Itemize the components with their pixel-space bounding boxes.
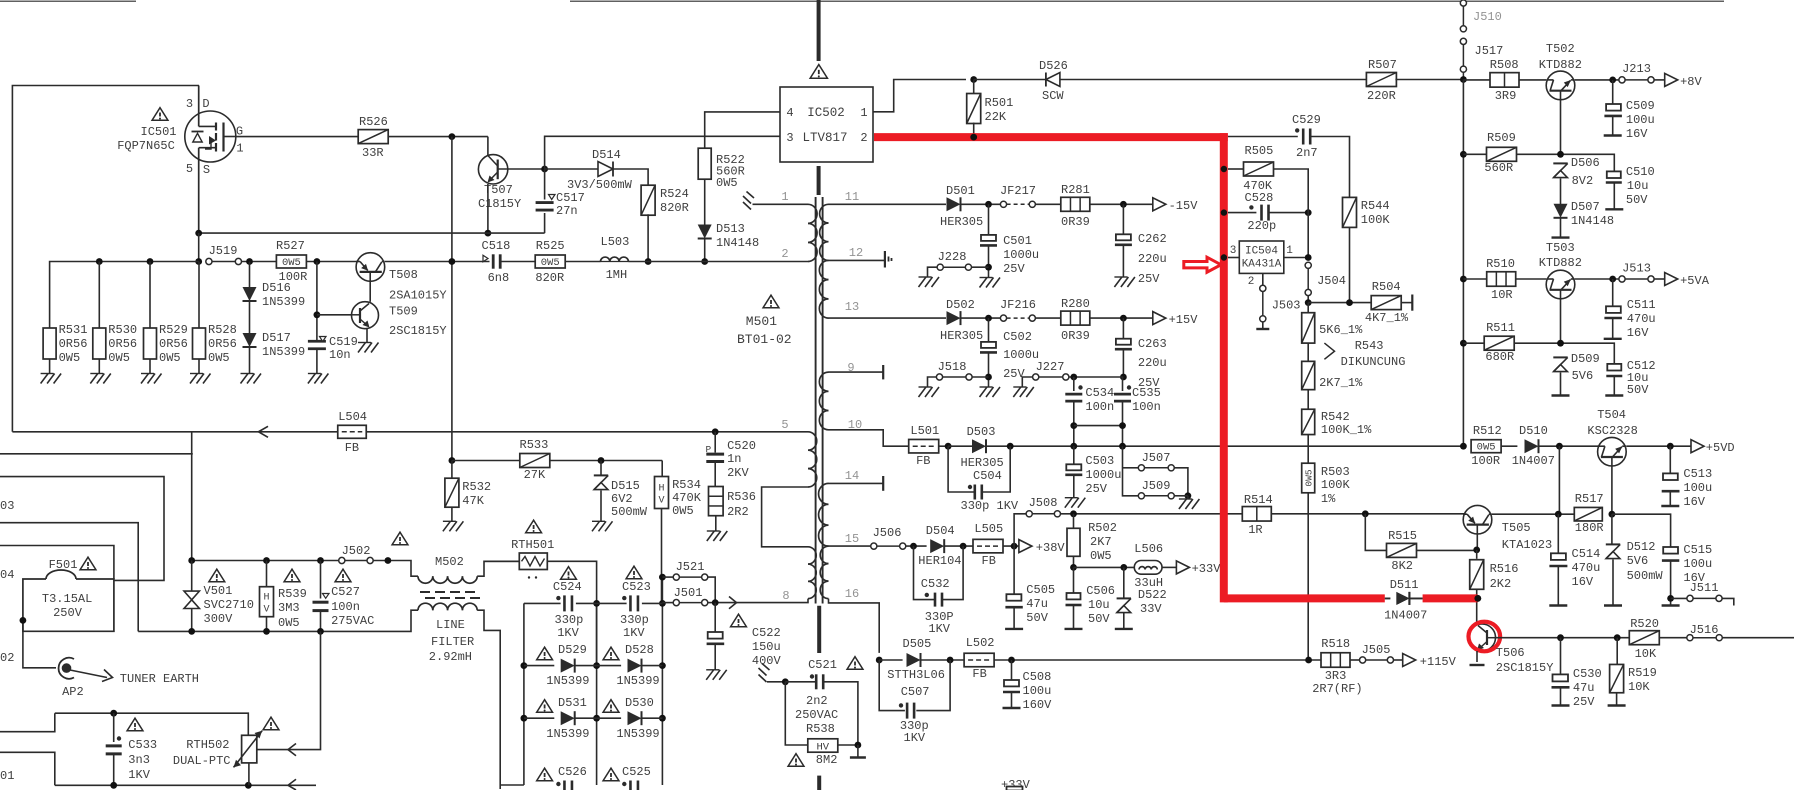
svg-text:D510: D510 bbox=[1519, 424, 1548, 438]
label 2SA1015Y bbox=[389, 289, 447, 303]
svg-text:C521: C521 bbox=[808, 658, 837, 672]
red highlight horizontal lower left part bbox=[1224, 594, 1385, 602]
label 10u bbox=[1088, 598, 1110, 612]
svg-text:KA431A: KA431A bbox=[1242, 259, 1282, 271]
jumper J501 bbox=[673, 586, 708, 606]
wire AP2 arrow line bbox=[70, 670, 107, 678]
svg-text:IC502: IC502 bbox=[807, 106, 845, 120]
jumper JF216 bbox=[1000, 298, 1036, 321]
svg-text:HER305: HER305 bbox=[940, 215, 983, 229]
wire D515 to ground bbox=[600, 491, 602, 522]
resistor R536 2R2 bbox=[709, 487, 724, 516]
svg-text:C528: C528 bbox=[1245, 191, 1274, 205]
label 8V2 bbox=[1572, 174, 1594, 188]
svg-text:03: 03 bbox=[0, 499, 14, 513]
svg-text:C1815Y: C1815Y bbox=[478, 197, 521, 211]
resistor R528 0R56 bbox=[193, 328, 206, 359]
svg-text:IC501: IC501 bbox=[141, 125, 177, 139]
isolation barrier thick line below core bbox=[817, 606, 821, 653]
wire T504 emitter to +5VD bbox=[1626, 445, 1691, 447]
label 1N5399 bbox=[262, 295, 305, 309]
svg-text:C525: C525 bbox=[622, 765, 651, 779]
svg-text:IC504: IC504 bbox=[1245, 246, 1278, 258]
wire pin10 step bbox=[829, 430, 909, 446]
border top-right bbox=[570, 0, 1724, 2]
svg-text:47u: 47u bbox=[1573, 681, 1595, 695]
junction R544 bottom bbox=[1346, 299, 1353, 306]
wire C504 loop right bbox=[982, 446, 1010, 492]
capacitor C529 2n7 bbox=[1303, 129, 1310, 145]
label 8M2 bbox=[816, 753, 838, 767]
label D530 bbox=[625, 696, 654, 710]
capacitor C521 2n2 250VAC bbox=[816, 674, 823, 689]
wire J227 left leg bbox=[1022, 377, 1032, 387]
ground under R532 bbox=[443, 521, 464, 531]
svg-text:J513: J513 bbox=[1622, 262, 1651, 276]
label 1N4007 bbox=[1512, 454, 1555, 468]
svg-text:D503: D503 bbox=[967, 425, 996, 439]
svg-text:T506: T506 bbox=[1496, 646, 1525, 660]
svg-text:D502: D502 bbox=[946, 298, 975, 312]
wire C262 lead bbox=[1122, 204, 1124, 234]
svg-text:16V: 16V bbox=[1683, 495, 1705, 509]
label D507 bbox=[1571, 200, 1600, 214]
pin label 1 bbox=[236, 142, 243, 156]
junction R530 top bbox=[96, 258, 103, 265]
ground under C503 bbox=[1065, 498, 1086, 508]
wire riser to pin1 node bbox=[1307, 205, 1309, 258]
wire pin9 row bbox=[829, 371, 884, 373]
label M502 bbox=[435, 555, 464, 569]
wire riser to R517 row bbox=[1558, 446, 1560, 514]
svg-text:F501: F501 bbox=[49, 558, 78, 572]
label 22K bbox=[985, 110, 1007, 124]
label R525 bbox=[536, 239, 565, 253]
label 27n bbox=[556, 204, 578, 218]
svg-text:FILTER: FILTER bbox=[431, 635, 474, 649]
wire 2K7 to R542 bbox=[1307, 390, 1309, 410]
label 100u bbox=[1023, 684, 1052, 698]
transistor T502 KTD882 bbox=[1546, 71, 1575, 100]
label 5V6 bbox=[1627, 554, 1649, 568]
transistor T509 2SC1815Y bbox=[352, 302, 379, 329]
junction T509 base node bbox=[314, 311, 321, 318]
label C504 bbox=[973, 469, 1002, 483]
wire node to D514 bbox=[545, 168, 598, 170]
svg-text:D526: D526 bbox=[1039, 59, 1068, 73]
wire input stub to fuse right bbox=[0, 477, 164, 581]
label D501 bbox=[946, 184, 975, 198]
resistor R512 0W5 bbox=[1471, 440, 1501, 454]
svg-text:J521: J521 bbox=[676, 560, 705, 574]
label 10n bbox=[329, 348, 351, 362]
label C1815Y bbox=[478, 197, 521, 211]
label KSC2328 bbox=[1587, 424, 1637, 438]
wire degauss bottom row bbox=[55, 784, 316, 786]
capacitor C263 220u 25V bbox=[1115, 339, 1132, 350]
wire R527 to T508 bbox=[306, 261, 356, 263]
svg-text:4K7_1%: 4K7_1% bbox=[1365, 311, 1409, 325]
wire C524 row bbox=[524, 602, 561, 604]
wire IC501 gate to R526 bbox=[236, 136, 359, 138]
resistor R516 2K2 bbox=[1470, 560, 1484, 590]
label D509 bbox=[1571, 352, 1600, 366]
junction D509 top bbox=[1557, 340, 1564, 347]
svg-text:100u: 100u bbox=[1683, 557, 1712, 571]
svg-text:J510: J510 bbox=[1473, 10, 1502, 24]
pin number 12 bbox=[849, 246, 863, 260]
junction source row bbox=[195, 258, 202, 265]
polarity dot C507 bbox=[899, 703, 903, 707]
capacitor C518 6n8 bbox=[493, 254, 500, 268]
svg-text:C524: C524 bbox=[553, 580, 582, 594]
diode D504 HER104 bbox=[930, 539, 944, 553]
junction R517 right bbox=[1609, 511, 1616, 518]
wire R532 lead top bbox=[451, 461, 453, 479]
wire 5K6 to 2K7 bbox=[1307, 343, 1309, 361]
svg-text:100n: 100n bbox=[1085, 400, 1114, 414]
ground bar under C511 bbox=[1604, 338, 1622, 340]
label 2.92mH bbox=[429, 650, 472, 664]
inductor L501 FB bbox=[909, 439, 939, 453]
label 275VAC bbox=[331, 614, 374, 628]
wire J227 right to C534 node bbox=[1069, 376, 1124, 378]
label R515 bbox=[1388, 529, 1417, 543]
capacitor C508 100u 160V bbox=[1003, 680, 1020, 692]
wire R533 to D515 node bbox=[549, 460, 662, 462]
svg-text:1KV: 1KV bbox=[928, 622, 950, 636]
svg-text:SCW: SCW bbox=[1042, 89, 1064, 103]
junction J518 right bbox=[985, 374, 992, 381]
label D515 bbox=[611, 479, 640, 493]
svg-text:470K: 470K bbox=[672, 491, 702, 505]
jumper J213 bbox=[1619, 62, 1654, 83]
label D502 bbox=[946, 298, 975, 312]
polarity dot C524 bbox=[556, 596, 560, 600]
label 1n bbox=[727, 452, 741, 466]
svg-text:R512: R512 bbox=[1473, 424, 1502, 438]
label 50V bbox=[1627, 383, 1649, 397]
label 3R9 bbox=[1495, 89, 1517, 103]
label R517 bbox=[1575, 492, 1604, 506]
junction riser C528 bbox=[1305, 209, 1312, 216]
winding M501 secondary 11-12 bbox=[820, 204, 829, 260]
svg-text:J508: J508 bbox=[1029, 496, 1058, 510]
wire D517 to ground bbox=[249, 347, 251, 374]
label C534 bbox=[1085, 386, 1114, 400]
wire D515 lead bbox=[600, 461, 602, 476]
label R507 bbox=[1368, 58, 1397, 72]
wire input stub 04b bbox=[0, 546, 114, 580]
inductor L503 1MH bbox=[601, 257, 629, 261]
label 1N5399 bbox=[546, 674, 589, 688]
svg-text:2K2: 2K2 bbox=[1490, 577, 1512, 591]
ground under R528 bbox=[190, 374, 211, 384]
capacitor C514 470u 16V bbox=[1549, 553, 1567, 566]
junction J228 right bbox=[985, 264, 992, 271]
wire D504 to L505 bbox=[944, 545, 974, 547]
label R544 bbox=[1361, 199, 1390, 213]
warning triangle RTH502 bbox=[263, 717, 279, 730]
wire C508 to bar bbox=[1011, 692, 1013, 708]
junction R505 left on red bbox=[1221, 166, 1227, 172]
cut label 01 bbox=[0, 769, 14, 783]
junction D506 top bbox=[1557, 151, 1564, 158]
diode D528 1N5399 bbox=[628, 659, 642, 673]
svg-text:J519: J519 bbox=[209, 244, 238, 258]
svg-text:1KV: 1KV bbox=[128, 768, 150, 782]
svg-text:R544: R544 bbox=[1361, 199, 1390, 213]
svg-text:C514: C514 bbox=[1572, 547, 1601, 561]
transistor T508 2SA1015Y bbox=[356, 253, 385, 282]
label 1MH bbox=[606, 268, 628, 282]
transistor T503 KTD882 bbox=[1546, 270, 1575, 299]
svg-text:L505: L505 bbox=[974, 522, 1003, 536]
wire C509 lead bbox=[1612, 80, 1614, 104]
warning triangle V501 bbox=[209, 569, 225, 582]
label 1KV bbox=[623, 626, 645, 640]
label KTD882 bbox=[1539, 58, 1582, 72]
svg-text:J516: J516 bbox=[1690, 623, 1719, 637]
wire R503 down to +115V row bbox=[1307, 493, 1309, 660]
capacitor C506 10u 50V bbox=[1066, 593, 1082, 605]
label 1N5399 bbox=[616, 727, 659, 741]
wire R281 to -15V arrow bbox=[1090, 203, 1153, 205]
pin number 8 bbox=[782, 589, 789, 603]
svg-text:C534: C534 bbox=[1085, 386, 1114, 400]
svg-text:25V: 25V bbox=[1138, 272, 1160, 286]
wire node up to IC502 pin3 line bbox=[545, 136, 780, 169]
svg-text:1: 1 bbox=[1286, 245, 1293, 257]
label 220u bbox=[1138, 356, 1167, 370]
wire C519 to ground bbox=[316, 349, 318, 374]
output arrow +8V bbox=[1665, 73, 1678, 86]
junction rail R510 bbox=[1460, 276, 1467, 283]
label 25V bbox=[1003, 262, 1025, 276]
label HER305 bbox=[940, 329, 983, 343]
svg-text:3R3: 3R3 bbox=[1325, 669, 1347, 683]
wire chain to 5K6 bbox=[1307, 303, 1309, 313]
wire T505 emitter down bbox=[1476, 533, 1478, 550]
svg-text:3: 3 bbox=[186, 97, 193, 111]
ground under J509 bbox=[1179, 499, 1200, 509]
wire C503 lead bbox=[1073, 446, 1075, 464]
resistor R514 1R bbox=[1242, 507, 1271, 522]
label T505 bbox=[1502, 521, 1531, 535]
svg-text:HER305: HER305 bbox=[940, 329, 983, 343]
resistor R543a 5K6_1% bbox=[1302, 313, 1315, 343]
svg-text:D530: D530 bbox=[625, 696, 654, 710]
pin number 3 bbox=[1230, 245, 1237, 257]
svg-text:2n7: 2n7 bbox=[1296, 146, 1318, 160]
resistor RTH502 DUAL-PTC bbox=[234, 731, 263, 768]
capacitor C507 330p 1KV bbox=[907, 703, 914, 719]
capacitor C509 100u 16V bbox=[1604, 104, 1622, 116]
label 2R7(RF) bbox=[1312, 682, 1362, 696]
junction C502 top bbox=[985, 315, 992, 322]
svg-text:D507: D507 bbox=[1571, 200, 1600, 214]
resistor R542 100K_1% bbox=[1302, 409, 1315, 434]
svg-text:500mW: 500mW bbox=[1627, 569, 1664, 583]
label R505 bbox=[1245, 144, 1274, 158]
wire R510 to T503 bbox=[1516, 278, 1546, 280]
capacitor C513 100u 16V bbox=[1662, 473, 1680, 491]
wire D501 to JF217 bbox=[961, 203, 1001, 205]
label 0W5 bbox=[1090, 549, 1112, 563]
wire C510 to bar bbox=[1613, 183, 1615, 210]
pin number 9 bbox=[847, 361, 854, 375]
junction C508 top bbox=[1008, 657, 1015, 664]
wire pin16 step bbox=[829, 599, 880, 653]
label R534 bbox=[672, 478, 701, 492]
svg-text:0R56: 0R56 bbox=[59, 337, 88, 351]
label C511 bbox=[1627, 298, 1656, 312]
wire R515 to emitter node bbox=[1416, 549, 1477, 551]
svg-text:+5VA: +5VA bbox=[1680, 274, 1710, 288]
label 25V bbox=[1138, 272, 1160, 286]
label R520 bbox=[1630, 617, 1659, 631]
winding M501 secondary 14-15 bbox=[819, 483, 829, 546]
svg-text:1N5399: 1N5399 bbox=[262, 345, 305, 359]
wire D529 row bbox=[524, 665, 554, 667]
resistor R529 0R56 bbox=[144, 328, 157, 359]
label C514 bbox=[1572, 547, 1601, 561]
svg-text:C527: C527 bbox=[331, 585, 360, 599]
wire C529 row bbox=[1228, 136, 1298, 138]
warning triangle F501 bbox=[80, 557, 96, 570]
wire R531 to ground bbox=[49, 359, 51, 374]
ground bar under C530 bbox=[1552, 704, 1570, 706]
wire J507 right loop bbox=[1174, 468, 1188, 496]
svg-text:2: 2 bbox=[781, 247, 788, 261]
ground bar under D507 bbox=[1552, 236, 1570, 238]
svg-text:330p 1KV: 330p 1KV bbox=[961, 499, 1019, 513]
label 0R56 bbox=[159, 337, 188, 351]
label 10K bbox=[1635, 647, 1657, 661]
capacitor C535 100n bbox=[1114, 394, 1131, 401]
svg-text:0R56: 0R56 bbox=[208, 337, 237, 351]
svg-text:D: D bbox=[202, 97, 209, 111]
label 1000u bbox=[1085, 468, 1121, 482]
junction fuse left edge bbox=[20, 617, 27, 624]
label +33V bottom bbox=[1001, 778, 1031, 790]
label 2R2 bbox=[727, 505, 749, 519]
svg-text:KSC2328: KSC2328 bbox=[1587, 424, 1637, 438]
wire R544 to J503 row bbox=[1349, 228, 1351, 303]
wire T509 emitter to ground bbox=[366, 328, 368, 343]
svg-text:100K: 100K bbox=[1361, 213, 1391, 227]
svg-text:H: H bbox=[263, 593, 269, 604]
capacitor C501 1000u 25V bbox=[980, 235, 997, 246]
label 16V bbox=[1683, 571, 1705, 585]
svg-text:TUNER EARTH: TUNER EARTH bbox=[120, 672, 199, 686]
polarity dot C532 bbox=[925, 593, 929, 597]
label 0R39 bbox=[1061, 329, 1090, 343]
wire R534 down to J521 node bbox=[661, 509, 663, 604]
svg-text:330p: 330p bbox=[555, 613, 584, 627]
label 100K_1% bbox=[1321, 423, 1372, 437]
wire C519 riser bbox=[316, 262, 318, 341]
label 10K bbox=[1628, 680, 1650, 694]
label RTH502 bbox=[186, 738, 229, 752]
wire D526 to R507 bbox=[1060, 79, 1367, 81]
label C523 bbox=[622, 580, 651, 594]
capacitor C510 10u 50V bbox=[1606, 171, 1622, 182]
label R509 bbox=[1487, 131, 1516, 145]
wire pin8 step bbox=[715, 599, 808, 603]
svg-text:100u: 100u bbox=[1626, 113, 1655, 127]
junction C519 node bbox=[314, 258, 321, 265]
wire J511 left stub bbox=[1671, 597, 1687, 599]
label T506 bbox=[1496, 646, 1525, 660]
capacitor C519 10n bbox=[308, 341, 326, 349]
jumper J506 bbox=[871, 526, 906, 549]
svg-text:AP2: AP2 bbox=[62, 685, 84, 699]
svg-text:D517: D517 bbox=[262, 331, 291, 345]
svg-text:100K: 100K bbox=[1321, 478, 1351, 492]
wire J504 to row bbox=[1307, 296, 1309, 303]
warning triangle C522 bbox=[731, 614, 747, 627]
junction D505 left bbox=[876, 657, 883, 664]
svg-text:220u: 220u bbox=[1138, 356, 1167, 370]
label +15V bbox=[1169, 313, 1199, 327]
winding M501 secondary 9-10 bbox=[819, 372, 828, 430]
junction C532 left bbox=[910, 543, 917, 550]
ground under C519 bbox=[308, 374, 329, 384]
svg-text:1N4148: 1N4148 bbox=[1571, 214, 1614, 228]
svg-text:J505: J505 bbox=[1362, 643, 1391, 657]
wire D510 to T504 bbox=[1539, 445, 1599, 447]
svg-text:0R56: 0R56 bbox=[159, 337, 188, 351]
wire R511 to D509 node bbox=[1514, 343, 1614, 364]
resistor R511 680R bbox=[1484, 336, 1514, 350]
wire C520 to R536 bbox=[714, 462, 716, 487]
label FILTER bbox=[431, 635, 474, 649]
svg-text:D505: D505 bbox=[903, 637, 932, 651]
label DUAL-PTC bbox=[173, 754, 231, 768]
label 470K bbox=[1243, 179, 1273, 193]
wire C533 lead bbox=[113, 713, 115, 742]
svg-text:C522: C522 bbox=[752, 626, 781, 640]
ground under R529 bbox=[141, 374, 162, 384]
label 10R bbox=[1491, 288, 1513, 302]
polarity mark C519 bbox=[320, 337, 327, 342]
label +38V bbox=[1036, 541, 1066, 555]
svg-text:50V: 50V bbox=[1627, 383, 1649, 397]
wire C521 left lead bbox=[785, 681, 816, 683]
label R514 bbox=[1244, 493, 1273, 507]
label C521 bbox=[808, 658, 837, 672]
pin number 5 bbox=[781, 418, 788, 432]
svg-text:C501: C501 bbox=[1003, 234, 1032, 248]
diode D503 HER305 bbox=[972, 439, 986, 453]
label R503 bbox=[1321, 465, 1350, 479]
pin label S bbox=[203, 163, 210, 177]
label TUNER EARTH bbox=[120, 672, 199, 686]
label T508 bbox=[389, 268, 418, 282]
wire D522 to bar bbox=[1123, 613, 1125, 629]
svg-text:C532: C532 bbox=[921, 577, 950, 591]
svg-text:D501: D501 bbox=[946, 184, 975, 198]
svg-text:1N4148: 1N4148 bbox=[716, 236, 759, 250]
svg-text:1N5399: 1N5399 bbox=[262, 295, 305, 309]
svg-text:M501: M501 bbox=[746, 314, 777, 329]
diode D530 1N5399 bbox=[628, 711, 642, 725]
svg-text:-15V: -15V bbox=[1169, 199, 1199, 213]
svg-text:R526: R526 bbox=[359, 115, 388, 129]
resistor R531 0R56 bbox=[43, 328, 56, 359]
label 2SC1815Y bbox=[1496, 661, 1554, 675]
